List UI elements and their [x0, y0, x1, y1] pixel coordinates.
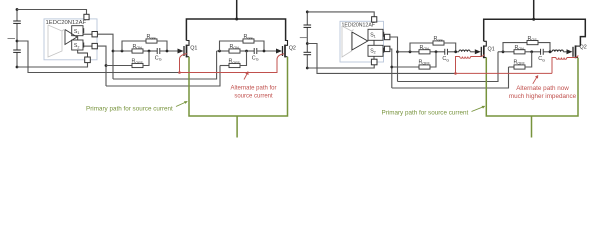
- transistor Q1 (right): [475, 41, 495, 58]
- wire VCC2 rail left: [17, 10, 87, 15]
- left circuit: supply decoupling vertical wire: [16, 8, 18, 21]
- node RGS branch Q2 right (junction dot): [502, 50, 505, 53]
- wire S2 output to OUT pin (left): [83, 45, 92, 47]
- wire RON to cap CG Q1: [143, 50, 157, 52]
- resistor RGS (right Q2 network): [527, 41, 538, 45]
- node COM tap left (junction dot): [16, 40, 19, 43]
- svg-text:Alternate path now: Alternate path now: [516, 85, 569, 92]
- annotation green arrow (right): [472, 106, 485, 111]
- resistor RON (Q1 network): [132, 49, 143, 53]
- wire COM tap to bottom return, right: [307, 44, 455, 74]
- wire OUT sink pin to ROFF rail (right): [390, 49, 392, 88]
- capacitor CG (Q2 network): [253, 48, 255, 54]
- gate driver S1 output mini-fet mark: [383, 32, 385, 37]
- gate driver VEE2 bottom pin: [85, 57, 91, 63]
- wire red bead to Q1 source right: [471, 55, 485, 57]
- node RGS branch Q2 (junction dot): [218, 50, 221, 53]
- wire red alternate path bottom (right): [456, 72, 553, 74]
- gate driver switch S1 box: [72, 26, 83, 36]
- wire VCC2 rail right: [307, 12, 374, 17]
- transistor Q1 gate bar: [183, 46, 185, 56]
- node VCC2 right (junction dot): [306, 11, 309, 14]
- capacitor CG (right Q1 network): [444, 49, 446, 55]
- wire loop B sink-pin return to Q2 network (left): [106, 66, 220, 87]
- wire RON to cap CG Q2 right: [525, 51, 541, 53]
- gate driver VCC2 top pin: [372, 17, 377, 22]
- svg-text:Q1: Q1: [488, 46, 495, 52]
- wire RGS branch up Q1: [122, 41, 146, 51]
- svg-text:RON: RON: [133, 44, 143, 50]
- inductor ferrite bead gate Q1 right: [459, 50, 470, 52]
- annotation red arrow (left): [244, 73, 248, 80]
- svg-text:CG: CG: [252, 55, 259, 61]
- op-amp U2 gate driver 1EDI20N12AF (right): [340, 17, 390, 65]
- annotation green arrow (left): [176, 102, 187, 107]
- wire RON rail Q1 right network: [398, 51, 420, 53]
- svg-text:RGS: RGS: [434, 36, 444, 42]
- wire RGS to gate node Q2 right: [538, 43, 550, 52]
- wire red alternate path riser Q1 right: [456, 57, 460, 74]
- node VCC2 left (junction dot): [16, 8, 19, 11]
- node red path junction (right, dot): [454, 72, 457, 75]
- node ROFF join Q1 right (junction dot): [435, 50, 438, 53]
- wire S1 output to OUT pin (left): [83, 33, 92, 35]
- svg-text:RGS: RGS: [147, 34, 157, 40]
- resistor ROFF (right Q1 network): [419, 65, 430, 69]
- gate driver inter-switch stub: [77, 36, 79, 40]
- gate driver S1 output mini-fet mark: [83, 28, 85, 33]
- capacitor C-vcc2 top (left supply): [13, 20, 21, 22]
- wire CG to gate Q2: [257, 50, 276, 52]
- svg-text:RON: RON: [230, 44, 240, 50]
- node red path junction (left, dot): [178, 71, 181, 74]
- svg-text:ROFF: ROFF: [229, 59, 241, 65]
- transistor Q1 channel bar: [186, 45, 188, 58]
- wire ROFF rail Q1 right: [392, 66, 419, 68]
- gate driver inter-switch stub: [373, 40, 375, 45]
- wire VEE2 line right: [307, 64, 374, 68]
- wire RGS to gate node Q2: [254, 41, 264, 51]
- svg-text:RGS: RGS: [244, 34, 254, 40]
- wire ROFF up to gate node Q2 right: [525, 52, 532, 67]
- node ROFF rail start Q1 right (junction dot): [390, 66, 393, 69]
- wire ROFF up to gate node Q1: [143, 51, 149, 66]
- transistor Q1 gate arrow: [178, 49, 184, 54]
- wire RON to cap CG Q2: [240, 50, 254, 52]
- node VEE2 left (junction dot): [16, 66, 19, 69]
- wire green source stub to power stage (right): [531, 116, 533, 138]
- node COM tap right (junction dot): [306, 42, 309, 45]
- inductor red ferrite bead alternate path Q1 right: [460, 57, 471, 59]
- node ROFF join Q2 right (junction dot): [530, 50, 533, 53]
- node RGS join gate Q2 (junction dot): [263, 50, 266, 53]
- wire RON rail Q2 right network: [498, 51, 514, 53]
- wire OUT source pin to RON rail (left): [97, 34, 113, 79]
- wire CG to gate node Q1 right: [447, 51, 458, 53]
- node RON rail start Q1 (junction dot): [112, 50, 115, 53]
- gate driver IC body outline: [340, 21, 384, 62]
- right supply polarity tick: [300, 37, 307, 39]
- wire drain supply stub right: [533, 0, 535, 19]
- wire ROFF up to gate node Q2: [240, 51, 247, 66]
- gate driver VCC2 top pin: [84, 14, 89, 19]
- transistor Q2 (right): [567, 44, 587, 58]
- gate driver S2 output mini-fet mark: [383, 48, 385, 53]
- capacitor C-vcc2 top (right supply): [304, 24, 312, 26]
- annotation red arrow (right): [533, 76, 538, 84]
- wire loop B sink-pin return to Q2 network (right): [392, 67, 509, 88]
- node drain rail junction left (dot): [235, 18, 238, 21]
- left supply polarity tick: [8, 38, 16, 40]
- svg-text:Alternate path for: Alternate path for: [230, 86, 276, 92]
- wire COM tap to bottom return, left: [17, 41, 179, 73]
- capacitor CG (right Q2 network): [540, 49, 542, 55]
- wire ROFF up to gate node Q1 right: [430, 52, 436, 67]
- node ROFF rail start Q1 (junction dot): [105, 64, 108, 67]
- gate driver amplifier triangle: [352, 32, 368, 50]
- wire loop A source-pin return to Q2 network (left): [113, 51, 217, 79]
- node RGS join gate Q1 (junction dot): [166, 50, 169, 53]
- transistor Q2 gate arrow: [276, 49, 282, 54]
- svg-text:RON: RON: [515, 45, 525, 51]
- svg-text:RON: RON: [420, 45, 430, 51]
- svg-text:Primary path for source curren: Primary path for source current: [382, 110, 469, 117]
- op-amp U1 gate driver 1EDI20N12AF (left): [44, 14, 97, 62]
- gate driver switch S2 box: [368, 45, 383, 56]
- svg-text:1EDI20N12AF: 1EDI20N12AF: [342, 23, 375, 29]
- transistor Q1 (left): [178, 41, 198, 58]
- wire RGS to gate node Q1: [157, 41, 167, 51]
- wire top drain rail left circuit: [186, 19, 285, 41]
- wire RGS branch up Q2 right: [503, 43, 527, 52]
- transistor Q1 drain stub: [186, 41, 189, 46]
- gate driver switch S2 box: [72, 40, 83, 50]
- svg-text:RGS: RGS: [528, 36, 538, 42]
- gate driver OUT sink pin: [385, 46, 390, 51]
- svg-text:ROFF: ROFF: [514, 59, 526, 65]
- gate driver S2 output mini-fet mark: [83, 43, 85, 48]
- transistor Q2 channel bar: [284, 45, 286, 58]
- resistor RGS (Q1 network): [146, 39, 157, 43]
- wire ROFF rail Q1: [106, 65, 132, 67]
- wire RON rail Q2 network: [217, 50, 229, 52]
- node RGS join gate Q1 right (junction dot): [454, 50, 457, 53]
- wire loop A source-pin return to Q2 network (right): [398, 52, 499, 82]
- resistor RON (right Q1 network): [419, 50, 430, 54]
- node ROFF join Q1 (junction dot): [148, 50, 151, 53]
- gate driver OUT source pin: [385, 34, 390, 39]
- wire top drain rail right circuit: [484, 19, 586, 46]
- gate driver isolation barrier symbol: [48, 25, 62, 57]
- gate driver OUT sink pin: [92, 43, 97, 48]
- svg-text:Q2: Q2: [289, 46, 296, 52]
- transistor Q2 source stub: [285, 56, 288, 58]
- svg-text:S1: S1: [74, 29, 80, 35]
- transistor Q2 gate bar: [282, 46, 284, 56]
- svg-text:S2: S2: [370, 49, 376, 55]
- inductor red ferrite bead alternate path Q2 right: [556, 58, 567, 60]
- resistor RGS (right Q1 network): [433, 41, 444, 45]
- wire RON to cap CG Q1 right: [430, 51, 445, 53]
- gate driver IC body outline: [44, 19, 97, 60]
- node RGS branch Q1 (junction dot): [121, 50, 124, 53]
- resistor ROFF (Q2 network): [229, 63, 240, 67]
- node RGS join gate Q2 right (junction dot): [549, 50, 552, 53]
- svg-text:CG: CG: [442, 56, 449, 62]
- transistor Q1 source stub: [484, 57, 487, 59]
- gate driver OUT source pin: [92, 32, 97, 37]
- wire drain supply stub left: [236, 0, 238, 19]
- wire green source stub to power stage (left): [236, 116, 238, 138]
- right circuit: supply decoupling vertical wire: [306, 10, 308, 25]
- inductor ferrite bead gate Q2 right: [552, 50, 563, 52]
- transistor Q1 channel bar: [483, 45, 485, 58]
- transistor Q2 drain stub: [285, 41, 288, 46]
- wire VEE2 line left: [17, 63, 88, 68]
- resistor RON (right Q2 network): [514, 50, 525, 54]
- capacitor C-vee2 bottom (left supply): [13, 49, 21, 51]
- wire bead to gate arrow Q2 right: [563, 51, 566, 53]
- wire bead to gate arrow Q1 right: [470, 51, 475, 53]
- resistor ROFF (right Q2 network): [514, 65, 525, 69]
- wire red riser to Q2 bead right: [552, 58, 556, 74]
- transistor Q2 (left): [276, 41, 296, 58]
- svg-text:S1: S1: [370, 33, 376, 39]
- wire OUT source pin to RON rail (right): [390, 37, 398, 82]
- wire green primary source path (right): [486, 58, 578, 117]
- svg-text:Q2: Q2: [580, 44, 587, 50]
- gate driver S2 to VEE pin stub: [78, 50, 88, 58]
- transistor Q1 drain stub: [484, 41, 487, 46]
- gate driver switch S1 box: [368, 29, 383, 40]
- transistor Q1 source stub: [187, 56, 190, 58]
- wire RGS branch up Q2: [220, 41, 244, 51]
- wire CG to gate node Q2 right: [543, 51, 552, 53]
- svg-text:Q1: Q1: [190, 46, 197, 52]
- wire ROFF rail Q2 right: [509, 66, 515, 68]
- resistor ROFF (Q1 network): [132, 63, 143, 67]
- wire RGS branch up Q1 right: [410, 43, 433, 52]
- gate driver amplifier triangle: [65, 30, 77, 45]
- capacitor C-vee2 bottom (right supply): [304, 51, 312, 53]
- wire ROFF rail Q2: [220, 65, 229, 67]
- resistor RGS (Q2 network): [243, 39, 254, 43]
- resistor RON (Q2 network): [229, 49, 240, 53]
- wire CG to gate Q1: [160, 50, 178, 52]
- wire OUT sink pin to ROFF rail (left): [97, 46, 106, 86]
- wire RON rail Q1 network: [113, 50, 132, 52]
- svg-text:ROFF: ROFF: [419, 59, 431, 65]
- svg-text:Primary path for source curren: Primary path for source current: [86, 106, 173, 113]
- svg-text:CG: CG: [538, 56, 545, 62]
- transistor Q1 gate arrow: [475, 49, 481, 54]
- wire red bead to Q2 source right: [567, 55, 578, 57]
- svg-text:S2: S2: [74, 43, 80, 49]
- gate driver isolation barrier symbol: [342, 26, 352, 57]
- node ROFF join Q2 (junction dot): [245, 50, 248, 53]
- svg-text:source current: source current: [234, 93, 273, 99]
- svg-text:much higher impedance: much higher impedance: [509, 93, 577, 100]
- node RGS branch Q1 right (junction dot): [409, 50, 412, 53]
- svg-text:ROFF: ROFF: [132, 59, 144, 65]
- node VEE2 right (junction dot): [306, 67, 309, 70]
- wire RGS to gate node Q1 right: [444, 43, 456, 52]
- wire red alternate source path (left): [180, 54, 285, 73]
- node RON rail start Q1 right (junction dot): [396, 50, 399, 53]
- gate driver VEE2 bottom pin: [371, 59, 377, 65]
- capacitor CG (Q1 network): [156, 48, 158, 54]
- node drain rail junction right (dot): [532, 18, 535, 21]
- svg-text:CG: CG: [155, 55, 162, 61]
- wire green primary source path (left): [189, 57, 288, 116]
- transistor Q1 gate bar: [480, 47, 482, 57]
- gate driver S2 to VEE pin stub: [373, 56, 375, 60]
